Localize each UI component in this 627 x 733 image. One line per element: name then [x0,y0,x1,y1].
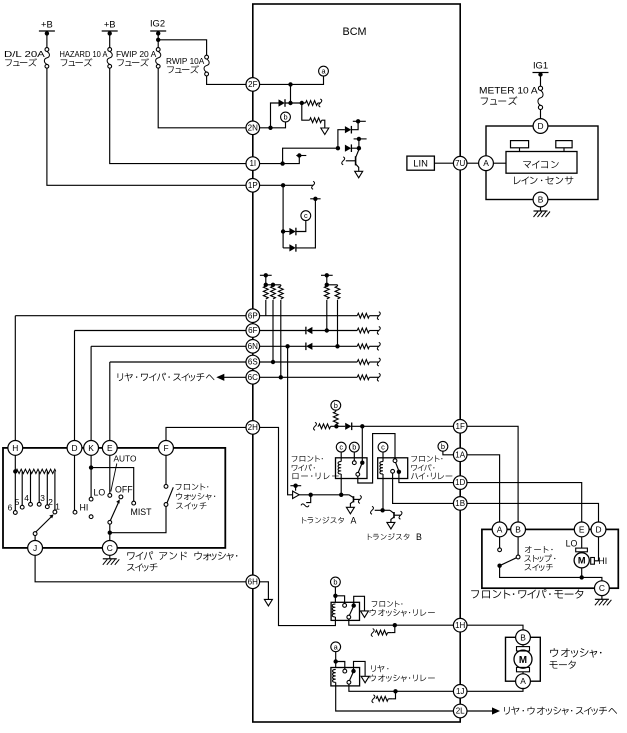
wire E down [109,455,111,493]
svg-text:c: c [381,443,385,452]
relay B common [397,470,401,474]
relay B NC contact [391,469,395,473]
wire 1I row [260,156,300,164]
rear washer relay common [351,669,355,673]
connector 1H [453,618,467,632]
svg-text:B: B [538,195,544,205]
wire 1H to washer motor B [467,625,523,631]
svg-text:6N: 6N [248,342,258,351]
wiper selector arm [108,520,112,524]
ground switch C [109,555,111,559]
svg-text:D: D [71,443,77,453]
terminal 6 [13,511,17,515]
svg-text:1B: 1B [455,499,465,508]
wires pullup group 1 [265,275,267,286]
wire K down [90,455,92,497]
wire relay A to relay B contact [358,434,395,483]
svg-text:MIST: MIST [131,507,153,517]
transistor T1 [355,156,357,165]
svg-text:6S: 6S [248,358,258,367]
auto stop arm [502,558,517,565]
node b front washer relay [331,577,341,587]
wire A to microcomputer [493,162,506,164]
svg-text:LIN: LIN [413,158,428,169]
wire 1D to E [467,483,582,522]
wire 2N row [260,122,286,128]
front washer switch label [176,483,209,490]
wire RWIP fuse to 2F [207,76,247,85]
wire relay B NC to 1B [393,473,454,503]
connector 6S [246,355,260,369]
wire HAZARD fuse to 1I [110,68,246,163]
washer switch contacts [164,503,168,507]
stub [306,495,311,503]
relay A moving contact [356,472,360,476]
svg-text:+B: +B [104,19,116,30]
wire rear coil to 2L [336,686,454,711]
terminal 4 [29,502,33,506]
wire 1P down [282,185,284,248]
relay B coil [382,452,384,461]
node b relay A contact [349,442,359,452]
auto stop moving contact [516,555,520,559]
node a at 2F [319,66,329,76]
junction b resistor [334,424,338,428]
washer switch arm [167,487,173,502]
junction relay A coil return [339,493,343,497]
buffer triangle [293,491,300,498]
wire 1J to washer motor A [467,688,523,692]
svg-text:F: F [163,443,168,453]
svg-text:b: b [283,113,287,122]
wire 6P row [15,315,357,317]
resistor to ground [310,118,322,123]
supply tick diode B [354,138,367,140]
relay B label [411,455,442,462]
terminal D [67,441,82,456]
svg-text:5: 5 [15,497,20,507]
wire to J [34,536,36,541]
diode C1 [283,231,289,233]
junction 1J resistor [393,689,397,693]
rear washer relay label [371,665,388,672]
svg-text:E: E [579,524,585,534]
wire 1I up to diode pair [283,148,338,163]
resistor pullup 1b [271,286,276,299]
node b at 2N [281,112,291,122]
front washer relay arm [349,607,353,615]
connector 1P [246,179,260,193]
fuse RWIP 10A [205,55,209,59]
wire 1A to A [467,455,500,522]
wire to lower resistor [302,103,310,120]
junction 1H resistor [393,623,397,627]
supply tick diode A [353,120,366,122]
diode A [345,126,351,133]
wire 2N to diode [271,103,279,128]
svg-text:E: E [107,443,113,453]
auto stop label [525,546,553,553]
rear washer relay fixed contact [343,669,347,673]
svg-text:HI: HI [598,556,607,566]
terminal MIST [132,501,136,505]
resistor 1F row [318,424,330,429]
ground arrow T1 [355,171,363,178]
ground arrow transistor A [346,507,354,514]
svg-text:6C: 6C [248,373,258,382]
svg-text:LO: LO [566,538,578,548]
junction coil contact [333,594,337,598]
wire [388,698,392,700]
svg-text:HI: HI [80,502,89,512]
junction 2F [288,82,292,86]
svg-text:1D: 1D [455,478,465,487]
terminal E [102,441,117,456]
terminal F [159,441,174,456]
wire D to HI brush [594,522,598,561]
washer motor M [514,650,532,668]
microcomputer pad 1 [511,141,529,148]
wire 1F row [314,422,317,430]
wire 6F row [75,330,306,332]
relay A common [360,461,364,465]
svg-text:A: A [520,676,526,686]
svg-text:2: 2 [48,497,53,507]
fuse HAZARD 10 A [108,48,112,52]
supply tick 1I [296,155,306,157]
transistor B [393,512,395,518]
svg-text:B: B [515,524,521,534]
svg-text:6: 6 [8,503,13,513]
junction 6C pullup [279,375,283,379]
svg-text:c: c [339,443,343,452]
connector 6N [246,340,260,354]
wire to tick [358,139,360,148]
svg-text:LO: LO [94,488,106,498]
svg-text:1J: 1J [456,687,464,696]
connector 1B [453,497,467,511]
wire F to washer switch [165,455,167,484]
wire 2H down to washer relay coil [260,427,336,625]
connector 1F [453,420,467,434]
wire relay contact to 1H [349,619,454,625]
transistor A label [302,517,344,524]
resistor 6C row end [357,375,369,380]
wire 6H hook [260,582,269,599]
wire K to MIST [91,468,134,502]
wire to relay A common [361,426,363,462]
wire to transistor A [299,494,349,496]
wire 2L out [467,710,492,712]
connector 7U [453,156,467,170]
wire IG2 to RWIP fuse [158,40,206,55]
wire 6P to H [14,316,16,441]
diode 2N-2F [279,99,285,106]
wire 6N row [91,345,306,347]
ground arrow 6H [264,599,272,606]
front washer relay common [352,603,356,607]
wire D/L fuse to 1P [47,68,246,185]
supply tick 1P [310,198,320,200]
node c relay A coil [336,442,346,452]
svg-text:A: A [483,158,489,168]
svg-text:6P: 6P [248,311,258,320]
terminal 3 [37,502,41,506]
resistor pullup 1c [278,286,283,299]
svg-text:6F: 6F [248,326,257,335]
transistor B collector wire [371,506,374,514]
relay A label [292,455,323,462]
wire A into box [499,522,501,548]
rotary selector arm [33,532,37,536]
diode 6N [306,343,312,350]
relay B upper contact [393,459,397,463]
svg-text:B: B [416,532,422,542]
svg-text:IG1: IG1 [533,60,548,71]
relay B arm [396,463,399,471]
washer motor label [550,648,601,658]
wire pivot to C [109,524,111,540]
washer motor box [506,637,541,681]
svg-text:C: C [107,543,113,553]
rear washer relay coil [333,669,336,682]
AUTO pointer [111,464,117,492]
svg-text:IG2: IG2 [150,18,165,29]
svg-text:H: H [12,443,18,453]
resistor 2F pull [306,101,318,106]
terminal A rain sensor [479,156,494,171]
connector 1D [453,476,467,490]
node a rear washer relay [331,642,341,652]
wire to rear fixed contact [336,662,345,670]
wire diode to resistor row [285,102,306,104]
svg-text:1I: 1I [249,159,256,168]
resistor pullup 2b [335,286,340,299]
connector 2F [246,78,260,92]
svg-text:BCM: BCM [343,26,367,38]
wire rear common to arrow [354,661,366,676]
terminal D motor [591,522,606,537]
resistor pullup 1a [263,286,268,299]
ground arrow transistor B [387,522,395,529]
front wiper motor box [482,529,618,588]
junction 6N pullup [335,344,339,348]
resistor 6N row end [357,344,369,349]
terminal E motor [574,522,589,537]
front wiper motor label [471,589,583,599]
diode B [345,145,351,152]
wire brush to A [522,672,524,675]
supply tick pullup group 1 [260,274,272,276]
svg-text:2H: 2H [248,423,258,432]
wire D to HI [74,455,76,510]
relay A box [336,458,368,479]
rain sensor box [486,126,598,200]
ground arrow [321,128,329,135]
wire 6C row [224,376,358,378]
resistor 6F row end [357,328,369,333]
wire up to diode A [338,130,345,149]
terminal 2 [45,505,49,509]
wire J to 6H [35,555,246,582]
wire 6S to E [109,362,111,441]
wire auto stop to C [500,566,602,581]
front washer relay coil [332,604,335,617]
wire [388,632,392,634]
junction relay A feed [360,424,364,428]
svg-text:FWIP 20 A: FWIP 20 A [116,49,157,59]
svg-text:1F: 1F [456,422,465,431]
terminal D rain sensor [533,119,548,134]
wire to washer switch [110,506,166,532]
connector 2H [246,421,260,435]
wire diode A to tick [351,121,358,129]
wire relay B common to 1D [399,472,454,483]
svg-text:1H: 1H [455,621,465,630]
front washer relay moving contact [347,615,351,619]
svg-text:4: 4 [24,493,29,503]
svg-text:2N: 2N [248,123,258,132]
wire B to brush [522,644,524,647]
transistor B label [368,533,410,540]
wire 2H to F [166,427,246,440]
node b above 1F resistor [331,400,341,410]
connector 6P [246,309,260,323]
resistor 1J [393,691,396,699]
microcomputer pad 2 [556,141,572,148]
junction diode pair [336,146,340,150]
wire to fixed contact [335,596,344,604]
junction 6N branch down [285,344,289,348]
connector 1I [246,157,260,171]
terminal K [84,441,99,456]
junction stub [309,493,313,497]
junction diode row [288,101,292,105]
wire 6N to K [90,346,92,440]
auto stop common [497,564,501,568]
resistor 1H [392,625,395,632]
wire 6N down to transistor A [288,346,293,495]
wire FWIP fuse to 2N [158,68,246,128]
wire diode B out [351,147,359,149]
svg-text:1P: 1P [248,181,258,190]
wire LIN to 7U [434,162,453,164]
wire 2F row [260,76,324,84]
fuse D/L 20A [45,48,49,52]
terminal A washer [516,674,531,689]
wires pullup group 2 [326,275,328,286]
diode C2 [283,247,289,249]
svg-text:B: B [520,632,526,642]
node c at 1P [301,211,311,221]
junction 6F pullup [325,328,329,332]
junction 6S pullup [271,360,275,364]
BCM module box [253,4,460,722]
junction 2N [268,126,272,130]
node b at 1A [438,441,448,451]
connector 1A [453,448,467,462]
wire 1B to D [467,503,599,522]
svg-text:J: J [33,543,37,553]
auto stop fixed contact [498,548,502,552]
terminal B washer [516,630,531,645]
relay A fixed contact [352,461,356,465]
fuse FWIP 20 A [156,48,160,52]
relay A coil [340,452,342,461]
terminal OFF [119,495,123,499]
resistor pullup 2a [324,286,329,299]
svg-text:M: M [519,655,527,666]
front washer relay label [372,601,403,607]
resistor ladder junction [14,455,16,510]
svg-text:HAZARD 10 A: HAZARD 10 A [60,49,108,59]
wire diode to 1F [352,425,454,427]
terminal 5 [20,505,24,509]
wire 7U to A [467,162,479,164]
rear washer relay moving contact [347,680,351,684]
junction 1I [280,161,284,165]
relay A arm [358,464,361,472]
wiper motor brush side [591,558,595,565]
junction 1P [281,183,285,187]
washer motor brush top [517,647,530,651]
relay B box [378,458,408,479]
svg-text:2F: 2F [248,80,257,89]
wire rear relay contact to 1J [349,684,454,691]
front washer relay box [331,602,359,620]
connector 6H [246,575,260,589]
terminal C [102,541,117,556]
wire E to motor [581,522,583,548]
terminal C motor [595,581,610,596]
washer motor brush bottom [517,667,530,671]
terminal AUTO [108,494,112,498]
resistor 6P row end [357,313,369,318]
wiper motor M [574,553,589,568]
svg-text:D: D [537,121,543,131]
connector 2N [246,121,260,135]
connector 6F [246,324,260,338]
terminal 1 [53,510,57,514]
resistor b-1F [335,410,337,411]
ladder taps [21,471,23,505]
svg-text:D/L 20A: D/L 20A [4,49,45,59]
wire b to contact [353,452,355,461]
connector 6C [246,371,260,385]
wire motor to return [581,568,583,578]
junction diode C1 [281,229,285,233]
supply tick transistor A [290,485,301,487]
switch label [127,551,237,560]
ground arrow rear washer relay [361,676,369,683]
svg-text:RWIP 10A: RWIP 10A [166,56,205,66]
junction motor return [580,575,584,579]
ground arrow front washer relay [361,611,369,618]
terminal H [8,441,23,456]
LIN bus box [407,156,435,170]
wire diode C2 to tick [296,199,316,248]
supply tick pullup group 2 [321,274,333,276]
fuse METER 10 A [538,86,542,90]
wire B into box [517,522,519,555]
svg-text:OFF: OFF [115,485,133,495]
connector 2L [453,704,467,718]
svg-text:A: A [497,524,503,534]
wire 1F to B [467,426,518,522]
svg-text:6H: 6H [248,577,258,586]
terminal LO pair [89,497,93,501]
wire 2F junction down [290,84,292,103]
